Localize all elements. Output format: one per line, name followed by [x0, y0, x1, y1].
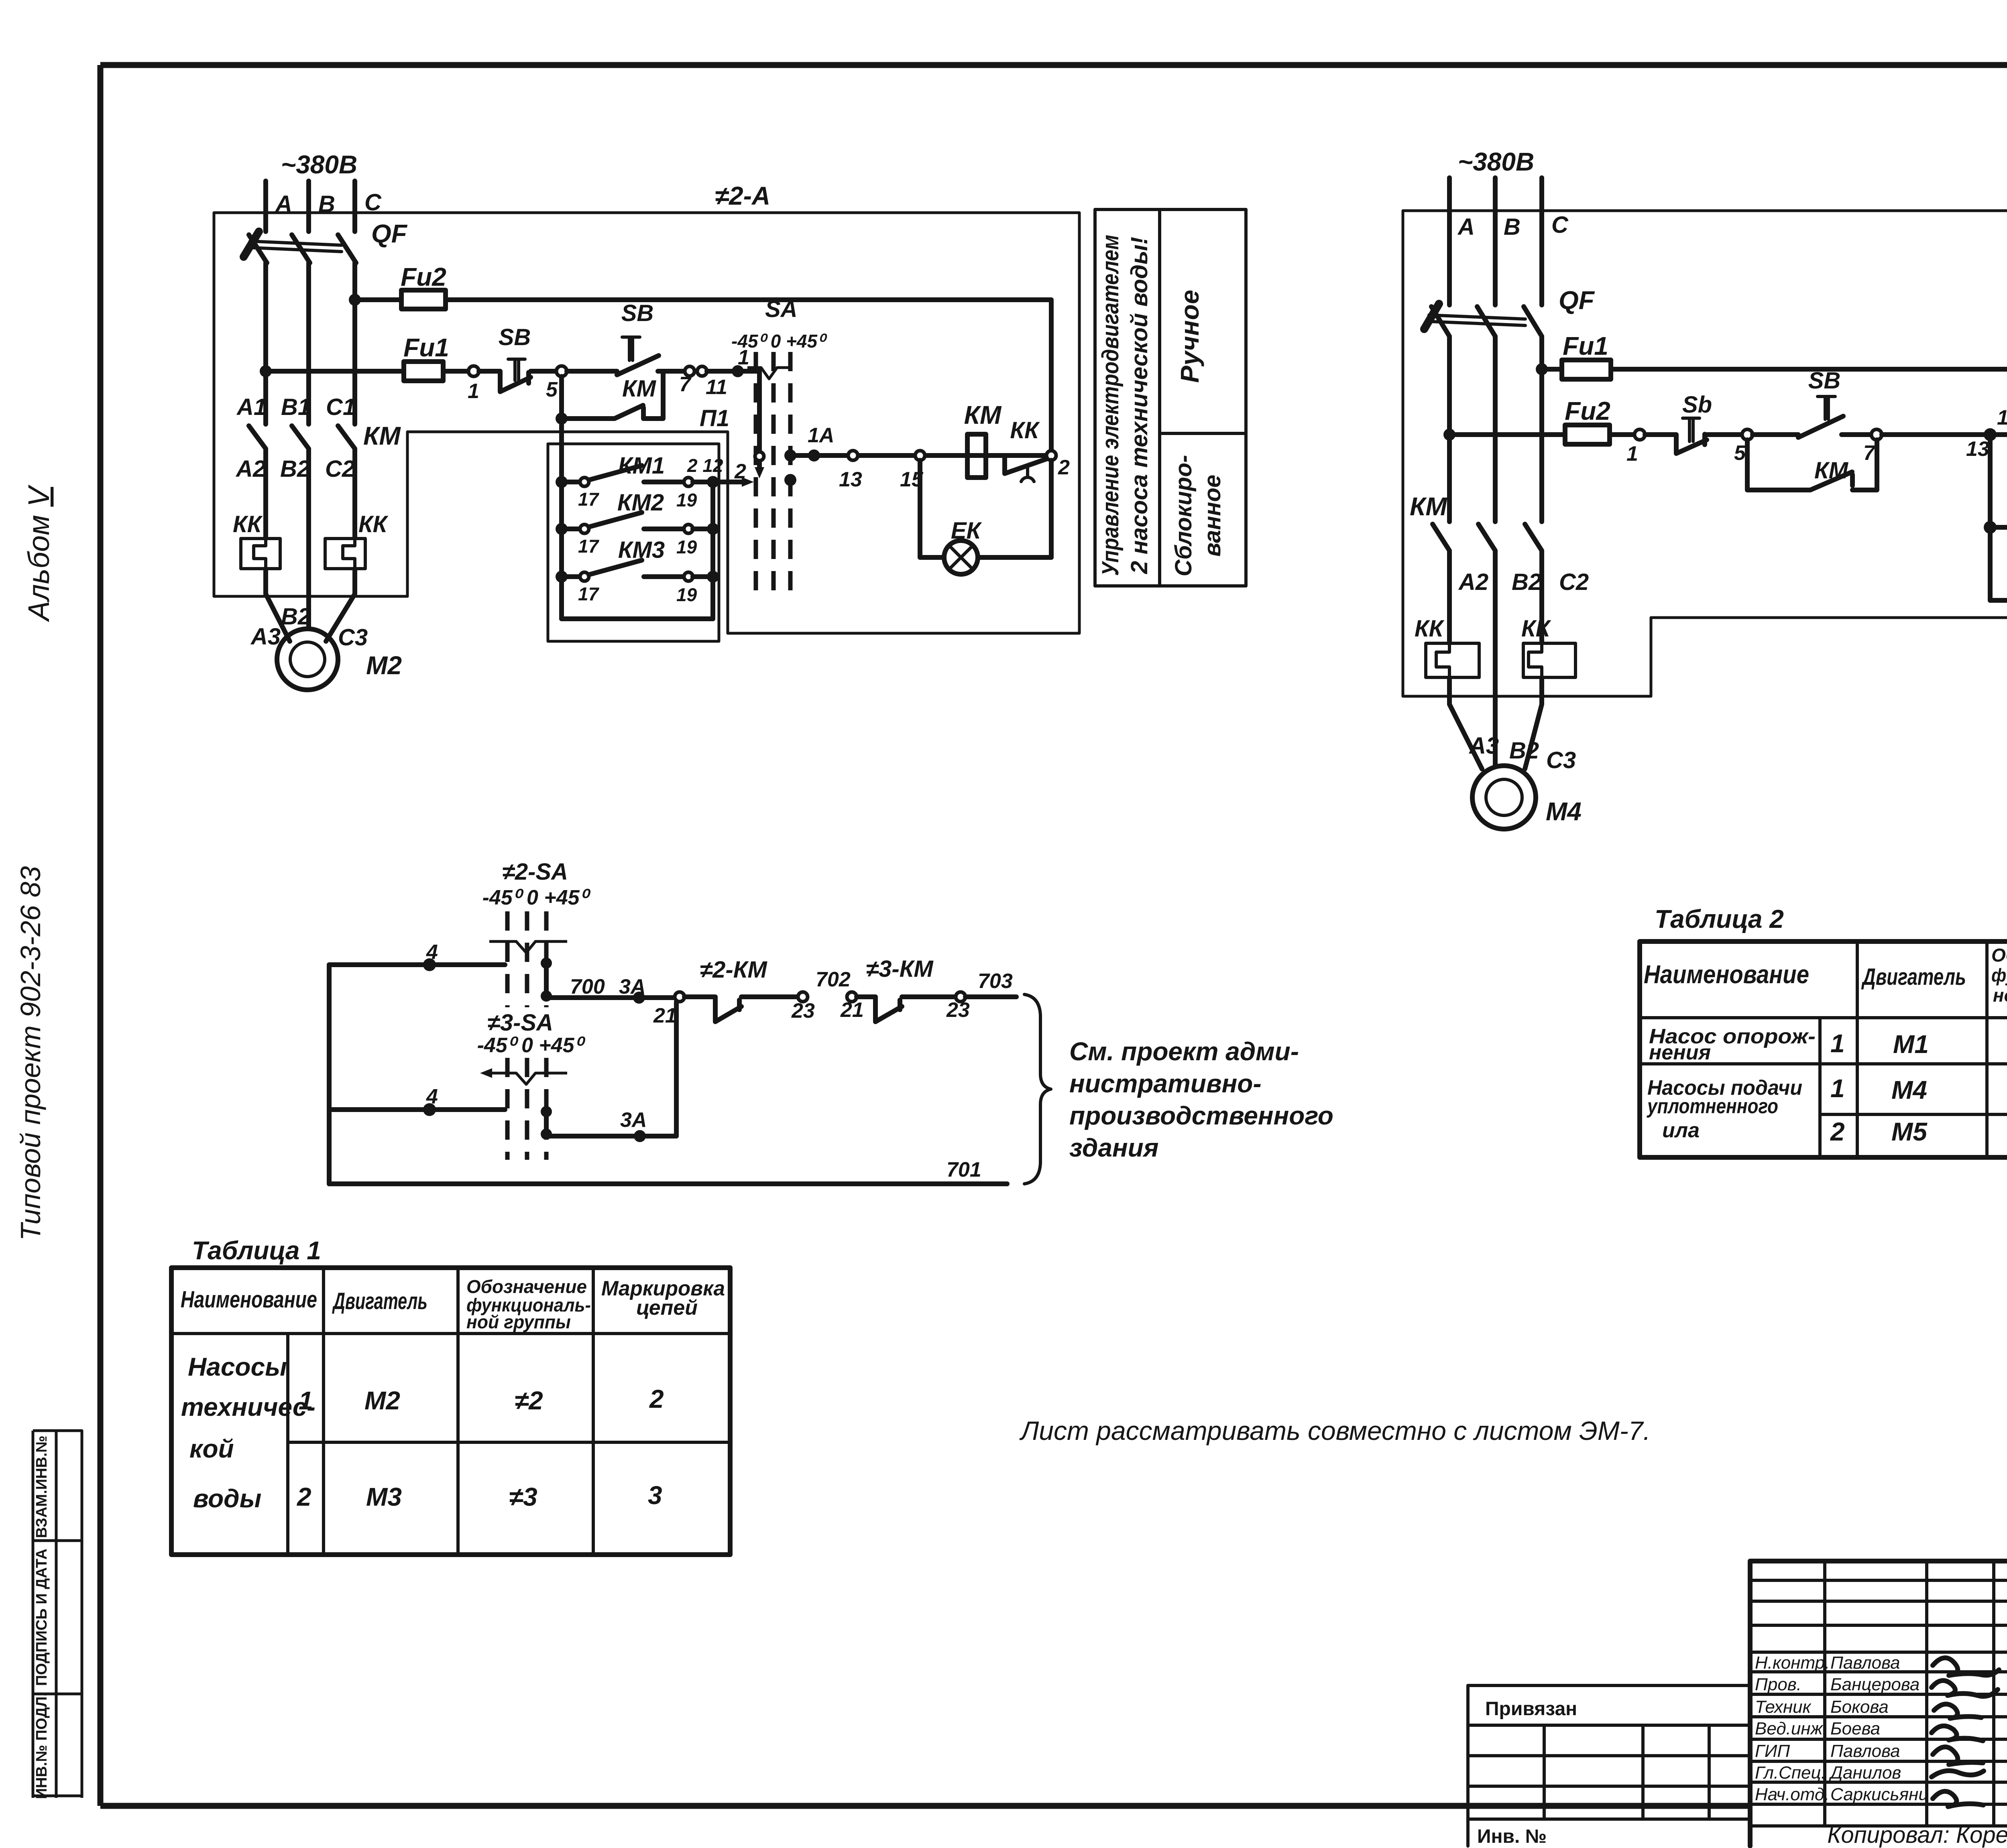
- svg-text:SВ: SВ: [1808, 368, 1841, 394]
- label #3-SA: [477, 1010, 586, 1057]
- aux contact KM2: [556, 490, 719, 557]
- svg-text:≠2-КМ: ≠2-КМ: [700, 957, 767, 983]
- svg-text:19: 19: [676, 490, 697, 510]
- P1 left bus wire: [559, 424, 564, 619]
- svg-text:С1: С1: [326, 394, 356, 420]
- svg-text:-45⁰ 0 +45⁰: -45⁰ 0 +45⁰: [482, 886, 591, 909]
- svg-text:SА: SА: [765, 296, 798, 322]
- svg-text:В: В: [318, 191, 335, 217]
- fuse Fu1 (right, upper control wire): [1536, 331, 1611, 379]
- node 1 circle (right): [1626, 429, 1645, 466]
- svg-text:QF: QF: [371, 219, 408, 248]
- table 2 data: [1646, 1025, 2007, 1146]
- svg-text:С3: С3: [338, 624, 368, 651]
- signature table grid: [1750, 1561, 2007, 1846]
- svg-text:С2: С2: [1559, 569, 1589, 595]
- svg-text:1: 1: [468, 380, 479, 403]
- terminal 21b: [840, 992, 864, 1022]
- title block outline: [1750, 1561, 2007, 1846]
- wire 1A-13-15 (left): [790, 424, 1051, 491]
- label KM (left power contacts): [363, 421, 401, 450]
- fuse Fu1 (left, lower control wire): [260, 333, 449, 381]
- svg-text:7: 7: [1863, 441, 1876, 465]
- thermal relay KK heater (phase A, right): [1415, 616, 1479, 677]
- svg-text:цепей: цепей: [636, 1296, 698, 1319]
- svg-text:SВ: SВ: [621, 300, 654, 326]
- svg-text:См. проект адми-: См. проект адми-: [1069, 1037, 1299, 1066]
- motor M4: [1472, 766, 1582, 829]
- svg-text:В2: В2: [1509, 738, 1539, 764]
- svg-text:≠3-КМ: ≠3-КМ: [866, 956, 934, 982]
- svg-text:Инв. №: Инв. №: [1477, 1826, 1547, 1847]
- left bus wire connecting rows: [327, 965, 332, 1184]
- circuit breaker QF (right): [1424, 286, 1595, 336]
- note: see administrative building project: [1069, 1037, 1333, 1162]
- svg-text:702: 702: [816, 968, 851, 991]
- svg-text:М2: М2: [364, 1386, 400, 1415]
- svg-text:А3: А3: [1468, 733, 1499, 759]
- svg-text:4: 4: [426, 1085, 438, 1108]
- svg-text:А2: А2: [235, 456, 266, 482]
- selector switch SA (left schematic): [731, 296, 827, 600]
- wire to node 1 (right): [1610, 432, 1635, 437]
- svg-text:700: 700: [570, 975, 605, 998]
- phase B lower line (right): [1478, 336, 1495, 764]
- contactor coil KM (left): [964, 401, 1002, 478]
- svg-text:Fu2: Fu2: [1565, 396, 1610, 425]
- svg-text:Ручное: Ручное: [1175, 290, 1204, 383]
- motor M2: [277, 629, 402, 690]
- svg-text:≠2-А: ≠2-А: [715, 181, 770, 210]
- aux contact KM1: [556, 453, 723, 510]
- svg-text:2: 2: [1058, 456, 1070, 479]
- bottom annotations: [1827, 1821, 2007, 1848]
- svg-text:Двигатель: Двигатель: [1861, 964, 1966, 990]
- motor leads A3 B2 C3 (right): [1449, 677, 1576, 773]
- svg-text:Саркисьянц: Саркисьянц: [1830, 1785, 1928, 1804]
- svg-text:Н.контр.: Н.контр.: [1755, 1653, 1830, 1673]
- svg-text:М1: М1: [1893, 1030, 1929, 1059]
- svg-text:-45⁰ 0 +45⁰: -45⁰ 0 +45⁰: [731, 331, 827, 352]
- phase bus C (left): [355, 181, 382, 232]
- phase bus B (left): [309, 181, 335, 232]
- fuse Fu2 (left, upper control wire): [349, 262, 446, 309]
- svg-text:2 насоса технической воды!: 2 насоса технической воды!: [1126, 237, 1152, 574]
- thermal relay KK heater (phase A, left): [233, 511, 280, 569]
- svg-text:Двигатель: Двигатель: [332, 1288, 427, 1314]
- svg-text:КК: КК: [1521, 616, 1551, 642]
- table 2 grid: [1640, 941, 2007, 1157]
- svg-text:ной группы: ной группы: [466, 1311, 571, 1332]
- control wire from Fu1 to node 2 (right): [1611, 369, 2007, 430]
- table 1 data: [181, 1352, 664, 1513]
- enclosure boundary #2-A: [214, 213, 1079, 633]
- svg-text:М3: М3: [366, 1482, 402, 1511]
- svg-text:С: С: [364, 189, 382, 215]
- svg-text:1: 1: [1626, 442, 1638, 466]
- svg-text:-45⁰ 0 +45⁰: -45⁰ 0 +45⁰: [477, 1034, 586, 1057]
- sidebar label: Типовой проект 902-3-26.83: [15, 866, 46, 1241]
- signal lamp EK branch (right): [1984, 435, 2007, 600]
- svg-text:Fu2: Fu2: [401, 262, 446, 291]
- svg-text:23: 23: [946, 998, 970, 1022]
- phase bus B (right): [1495, 178, 1521, 305]
- node 1/13 junction (right): [1966, 406, 2007, 461]
- svg-text:~380В: ~380В: [1458, 147, 1534, 176]
- comment box (left schematic): [1095, 209, 1246, 586]
- svg-text:производственного: производственного: [1069, 1101, 1333, 1130]
- brace to building note: [1024, 994, 1051, 1184]
- table 2 header text: [1644, 945, 2007, 1006]
- svg-text:Павлова: Павлова: [1830, 1741, 1900, 1761]
- sidebar label: Альбом V: [22, 484, 55, 622]
- svg-text:4: 4: [426, 941, 438, 964]
- svg-text:3А: 3А: [619, 975, 645, 998]
- svg-text:уплотненного: уплотненного: [1646, 1095, 1778, 1118]
- wire node 11 to SA (left): [707, 346, 759, 377]
- svg-text:11: 11: [706, 376, 727, 399]
- svg-text:13: 13: [1966, 437, 1989, 461]
- circuit breaker QF (left): [244, 219, 408, 263]
- phase bus C (right): [1542, 178, 1569, 305]
- svg-text:17: 17: [578, 489, 600, 510]
- svg-text:701: 701: [947, 1158, 981, 1181]
- svg-text:~380В: ~380В: [281, 150, 357, 179]
- aux contact block P1 enclosure: [548, 405, 729, 641]
- svg-text:≠3: ≠3: [509, 1482, 537, 1511]
- svg-text:ной группы: ной группы: [1993, 985, 2007, 1006]
- svg-text:В2: В2: [280, 456, 310, 482]
- svg-text:5: 5: [1734, 441, 1746, 465]
- signatures (handwritten squiggles): [1932, 1658, 1999, 1807]
- P1 right bus wire: [710, 482, 715, 619]
- svg-text:Привязан: Привязан: [1485, 1698, 1577, 1720]
- thermal contact KK (left): [1005, 417, 1048, 482]
- SA break mark (lower): [480, 1068, 567, 1084]
- aux contact KM3: [556, 537, 719, 605]
- node labels A2 B2 C2: [235, 456, 355, 482]
- svg-text:КК: КК: [1010, 417, 1040, 443]
- svg-text:ванное: ванное: [1199, 475, 1225, 557]
- enclosure boundary #4-A: [1403, 211, 2007, 696]
- svg-text:≠3-SА: ≠3-SА: [487, 1010, 553, 1036]
- svg-text:2: 2: [1830, 1117, 1845, 1146]
- svg-text:ила: ила: [1662, 1119, 1700, 1142]
- wire 4 (lower row): [329, 1085, 505, 1116]
- thermal relay KK heater (phase C, right): [1521, 616, 1575, 677]
- node labels A2 B2 C2 (right): [1458, 569, 1589, 595]
- svg-text:21: 21: [653, 1004, 677, 1027]
- svg-text:Пров.: Пров.: [1755, 1675, 1801, 1694]
- node 11 (left): [697, 366, 727, 399]
- fuse Fu2 (right, lower control wire): [1443, 396, 1610, 444]
- svg-text:В2: В2: [1512, 569, 1541, 595]
- svg-text:техничес-: техничес-: [181, 1393, 316, 1421]
- svg-text:КК: КК: [1415, 616, 1445, 642]
- svg-text:М2: М2: [366, 651, 402, 680]
- left attachment table (Privyazan): [1468, 1685, 1750, 1847]
- svg-text:кой: кой: [189, 1434, 234, 1463]
- svg-text:3: 3: [648, 1481, 662, 1510]
- svg-text:воды: воды: [193, 1484, 261, 1513]
- svg-text:КК: КК: [358, 511, 389, 537]
- node 1 (left): [468, 366, 479, 403]
- svg-text:1: 1: [1830, 1029, 1845, 1058]
- svg-text:нистративно-: нистративно-: [1069, 1069, 1262, 1098]
- SA upper contact pin: [541, 958, 552, 1002]
- svg-text:Наименование: Наименование: [181, 1287, 317, 1313]
- svg-text:В2: В2: [281, 604, 311, 630]
- svg-text:С2: С2: [325, 456, 355, 482]
- svg-text:ГИП: ГИП: [1755, 1741, 1790, 1761]
- svg-text:В1: В1: [281, 394, 311, 420]
- svg-text:ВЗАМ.ИНВ.№: ВЗАМ.ИНВ.№: [33, 1435, 50, 1538]
- svg-text:SВ: SВ: [499, 324, 531, 350]
- KM self-holding contact (left): [556, 371, 663, 425]
- svg-text:Управление электродвигателем: Управление электродвигателем: [1097, 235, 1124, 576]
- wire to node 1: [443, 369, 468, 374]
- phase C lower line with KM contact (right): [1525, 336, 1542, 643]
- svg-text:КМ: КМ: [964, 401, 1002, 429]
- svg-text:≠2: ≠2: [515, 1386, 543, 1415]
- svg-text:А3: А3: [250, 624, 281, 650]
- svg-text:Таблица 2: Таблица 2: [1655, 905, 1784, 933]
- svg-text:ПОДПИСЬ И ДАТА: ПОДПИСЬ И ДАТА: [33, 1549, 50, 1686]
- wire end 703: [965, 994, 1016, 999]
- svg-text:Техник: Техник: [1755, 1697, 1812, 1717]
- svg-text:нения: нения: [1649, 1041, 1711, 1064]
- table 1 title: [192, 1236, 321, 1265]
- wire 3A (lower) with riser to 21: [546, 1002, 676, 1142]
- time relay resistor JR with ground: [1990, 563, 2007, 614]
- svg-text:Sb: Sb: [1682, 392, 1712, 418]
- svg-text:Типовой проект 902-3-26 83: Типовой проект 902-3-26 83: [15, 866, 46, 1241]
- sidebar stamp column: [33, 1431, 82, 1799]
- label KM (right power contacts): [1410, 492, 1447, 521]
- node 5 (right): [1734, 429, 1753, 465]
- node 7 (left): [679, 366, 694, 396]
- contact #3-KM (remote line): [857, 956, 956, 1022]
- svg-text:А1: А1: [236, 394, 267, 420]
- svg-text:19: 19: [676, 537, 697, 557]
- svg-text:М5: М5: [1891, 1117, 1928, 1146]
- svg-text:Обозначение: Обозначение: [466, 1276, 587, 1297]
- svg-text:Наименование: Наименование: [1644, 960, 1809, 989]
- svg-text:П1: П1: [700, 405, 729, 431]
- table 1 grid: [171, 1268, 730, 1555]
- stop button Sb (break contact, right): [1645, 392, 1742, 453]
- SA break mark (upper): [489, 941, 567, 953]
- svg-text:19: 19: [676, 584, 697, 605]
- phase bus A (right): [1449, 178, 1475, 305]
- svg-text:2: 2: [649, 1384, 664, 1413]
- svg-text:2: 2: [297, 1482, 311, 1511]
- selector switch SA dashed poles (upper group): [507, 911, 546, 1160]
- motor leads A3 B2 C3 (left): [250, 569, 368, 651]
- start button SB (make contact, left): [567, 300, 684, 375]
- svg-text:703: 703: [978, 970, 1013, 993]
- svg-text:Сблокиро-: Сблокиро-: [1170, 455, 1197, 577]
- svg-text:Нач.отд.: Нач.отд.: [1755, 1785, 1829, 1804]
- phase A lower line with KM contact (right): [1433, 336, 1449, 643]
- start button SB (make contact, right): [1753, 368, 1871, 437]
- wire 4 (upper row): [329, 941, 505, 971]
- svg-text:Обозначение: Обозначение: [1991, 945, 2007, 966]
- bottom wire 701: [329, 1158, 1007, 1184]
- terminal 21: [653, 992, 684, 1027]
- stop button SB (break contact, left): [479, 324, 556, 392]
- svg-text:А2: А2: [1458, 569, 1488, 595]
- svg-text:2: 2: [734, 460, 746, 483]
- svg-text:Данилов: Данилов: [1828, 1763, 1901, 1783]
- phase B lower line with KM contact (left): [292, 263, 309, 628]
- label #2-A: [715, 181, 770, 210]
- svg-text:1: 1: [299, 1386, 313, 1415]
- svg-text:КК: КК: [233, 511, 263, 537]
- wire 2 exit from P1 to SA: [707, 460, 754, 488]
- svg-text:5: 5: [546, 378, 558, 401]
- svg-text:ЕК: ЕК: [951, 518, 982, 544]
- terminal 23b / label 703: [946, 970, 1013, 1022]
- P1 bottom bus wire: [562, 616, 713, 621]
- note: consider sheet together with EM-7: [1019, 1416, 1651, 1445]
- svg-text:Вед.инж.: Вед.инж.: [1755, 1719, 1828, 1738]
- svg-text:17: 17: [578, 583, 600, 604]
- node 7 (right): [1863, 429, 1882, 465]
- svg-text:Fu1: Fu1: [403, 333, 449, 362]
- svg-text:≠2-SА: ≠2-SА: [502, 859, 568, 885]
- svg-text:КМ: КМ: [363, 421, 401, 450]
- svg-text:Насосы: Насосы: [188, 1352, 287, 1381]
- svg-text:С: С: [1551, 212, 1569, 238]
- svg-text:Банцерова: Банцерова: [1830, 1675, 1919, 1694]
- svg-text:1: 1: [1997, 406, 2007, 429]
- svg-text:QF: QF: [1559, 286, 1595, 315]
- node 5 (left): [546, 366, 567, 401]
- svg-text:КМ: КМ: [622, 376, 657, 402]
- svg-text:23: 23: [791, 999, 815, 1023]
- wire node 7 to KM coil (right): [1882, 432, 2007, 437]
- svg-text:КМ: КМ: [1410, 492, 1447, 521]
- svg-text:Копировал: Корецкая: Копировал: Корецкая: [1827, 1822, 2007, 1848]
- wire 700 3A to terminal 21: [546, 975, 675, 1004]
- table 1 header text: [181, 1276, 725, 1332]
- thermal relay KK heater (phase C, left): [325, 511, 389, 569]
- svg-text:Таблица 1: Таблица 1: [192, 1236, 321, 1265]
- svg-text:Бокова: Бокова: [1830, 1697, 1889, 1717]
- contact #2-KM (remote line): [684, 957, 798, 1022]
- svg-text:Павлова: Павлова: [1830, 1653, 1900, 1673]
- label ~380V (left): [281, 150, 357, 179]
- svg-text:3А: 3А: [620, 1108, 647, 1132]
- svg-text:7: 7: [679, 373, 692, 396]
- svg-text:М4: М4: [1891, 1075, 1927, 1104]
- svg-text:ИНВ.№ ПОДЛ.: ИНВ.№ ПОДЛ.: [33, 1692, 50, 1799]
- svg-text:Боева: Боева: [1830, 1719, 1880, 1738]
- svg-text:1А: 1А: [808, 424, 834, 447]
- svg-text:2 12: 2 12: [687, 455, 723, 476]
- phase C lower line with KM contact (left): [338, 263, 355, 539]
- svg-text:Fu1: Fu1: [1563, 331, 1608, 360]
- label ~380V (right): [1458, 147, 1534, 176]
- phase bus A (left): [266, 181, 292, 232]
- KM self-holding contact (right): [1747, 440, 1877, 490]
- terminal 23 / label 702: [791, 968, 851, 1023]
- svg-text:А: А: [1457, 214, 1475, 240]
- svg-text:17: 17: [578, 536, 600, 557]
- control wire from Fu2 to node 2 (left): [446, 300, 1051, 451]
- svg-text:Альбом V: Альбом V: [22, 484, 55, 622]
- svg-text:В: В: [1504, 214, 1521, 240]
- svg-text:13: 13: [839, 468, 862, 491]
- svg-text:функциональ-: функциональ-: [1991, 965, 2007, 986]
- svg-text:Лист рассматривать совместно с: Лист рассматривать совместно с листом ЭМ…: [1019, 1416, 1651, 1445]
- node 2 (left): [1046, 451, 1070, 479]
- svg-text:1: 1: [1830, 1074, 1845, 1103]
- signal lamp EK branch (left): [920, 460, 1051, 574]
- signature table labels: [1755, 1653, 1928, 1804]
- node labels A1 B1 C1: [236, 394, 356, 420]
- label #2-SA: [482, 859, 591, 909]
- svg-text:А: А: [275, 191, 292, 217]
- svg-text:здания: здания: [1069, 1133, 1158, 1162]
- svg-text:С3: С3: [1546, 747, 1576, 773]
- SA lower contact pin: [541, 1106, 552, 1140]
- svg-text:М4: М4: [1546, 797, 1582, 826]
- table 2 title: [1655, 905, 1784, 933]
- svg-text:21: 21: [840, 998, 864, 1022]
- svg-text:Гл.Спец.: Гл.Спец.: [1755, 1763, 1826, 1783]
- phase A lower line with KM contact (left): [249, 263, 266, 539]
